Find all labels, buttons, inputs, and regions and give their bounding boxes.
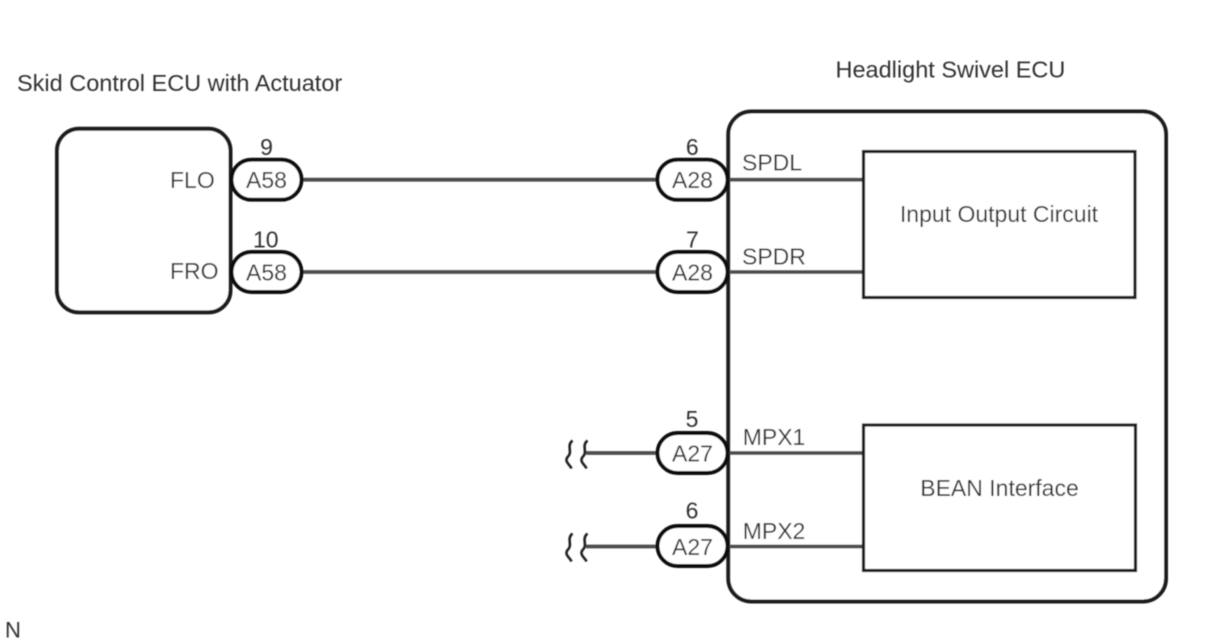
svg-text:A27: A27: [672, 534, 713, 560]
svg-text:A28: A28: [672, 167, 713, 193]
svg-text:10: 10: [253, 227, 279, 253]
svg-text:7: 7: [686, 227, 699, 253]
wire MPX1: A27 pin 5 to BEAN Interface: [727, 451, 864, 455]
connector A27 pin 5: [658, 433, 728, 473]
wire MPX2: A27 pin 6 to BEAN Interface: [727, 545, 864, 549]
svg-text:A28: A28: [672, 260, 713, 286]
wire break squiggle MPX2: [566, 534, 587, 562]
block: BEAN Interface: [864, 425, 1136, 571]
svg-text:A58: A58: [246, 260, 287, 286]
svg-text:A27: A27: [672, 441, 713, 467]
svg-text:9: 9: [260, 134, 273, 160]
wire SPDR: A28 pin 7 to Input Output Circuit: [727, 270, 864, 274]
svg-text:SPDL: SPDL: [742, 150, 802, 176]
connector A58 pin 9: [232, 160, 302, 200]
svg-text:MPX2: MPX2: [743, 518, 806, 544]
ECU block U2 Headlight Swivel ECU: [728, 112, 1166, 602]
svg-text:6: 6: [686, 134, 699, 160]
wire FLO: A58 pin 9 to A28 pin 6: [298, 178, 660, 182]
wire SPDL: A28 pin 6 to Input Output Circuit: [727, 178, 864, 182]
wire MPX1: break to A27 pin 5: [586, 451, 660, 455]
svg-text:N: N: [5, 618, 21, 643]
svg-text:Headlight Swivel ECU: Headlight Swivel ECU: [836, 57, 1066, 83]
svg-text:A58: A58: [246, 167, 287, 193]
wire break squiggle MPX1: [566, 441, 587, 469]
svg-text:BEAN Interface: BEAN Interface: [920, 475, 1079, 501]
svg-text:6: 6: [686, 498, 699, 524]
svg-text:SPDR: SPDR: [742, 244, 806, 270]
wire FRO: A58 pin 10 to A28 pin 7: [298, 270, 660, 274]
connector A58 pin 10: [232, 252, 302, 292]
ECU block U1 Skid Control ECU with Actuator: [57, 129, 231, 313]
connector A27 pin 6: [658, 526, 728, 566]
svg-text:FLO: FLO: [170, 167, 215, 193]
svg-text:Skid Control ECU with Actuator: Skid Control ECU with Actuator: [17, 70, 342, 96]
svg-text:MPX1: MPX1: [743, 424, 806, 450]
svg-text:FRO: FRO: [170, 258, 219, 284]
connector A28 pin 7: [658, 252, 728, 292]
connector A28 pin 6: [658, 160, 728, 200]
block: Input Output Circuit: [864, 152, 1136, 298]
wire MPX2: break to A27 pin 6: [586, 545, 660, 549]
svg-text:5: 5: [686, 406, 699, 432]
svg-text:Input Output Circuit: Input Output Circuit: [900, 201, 1099, 227]
